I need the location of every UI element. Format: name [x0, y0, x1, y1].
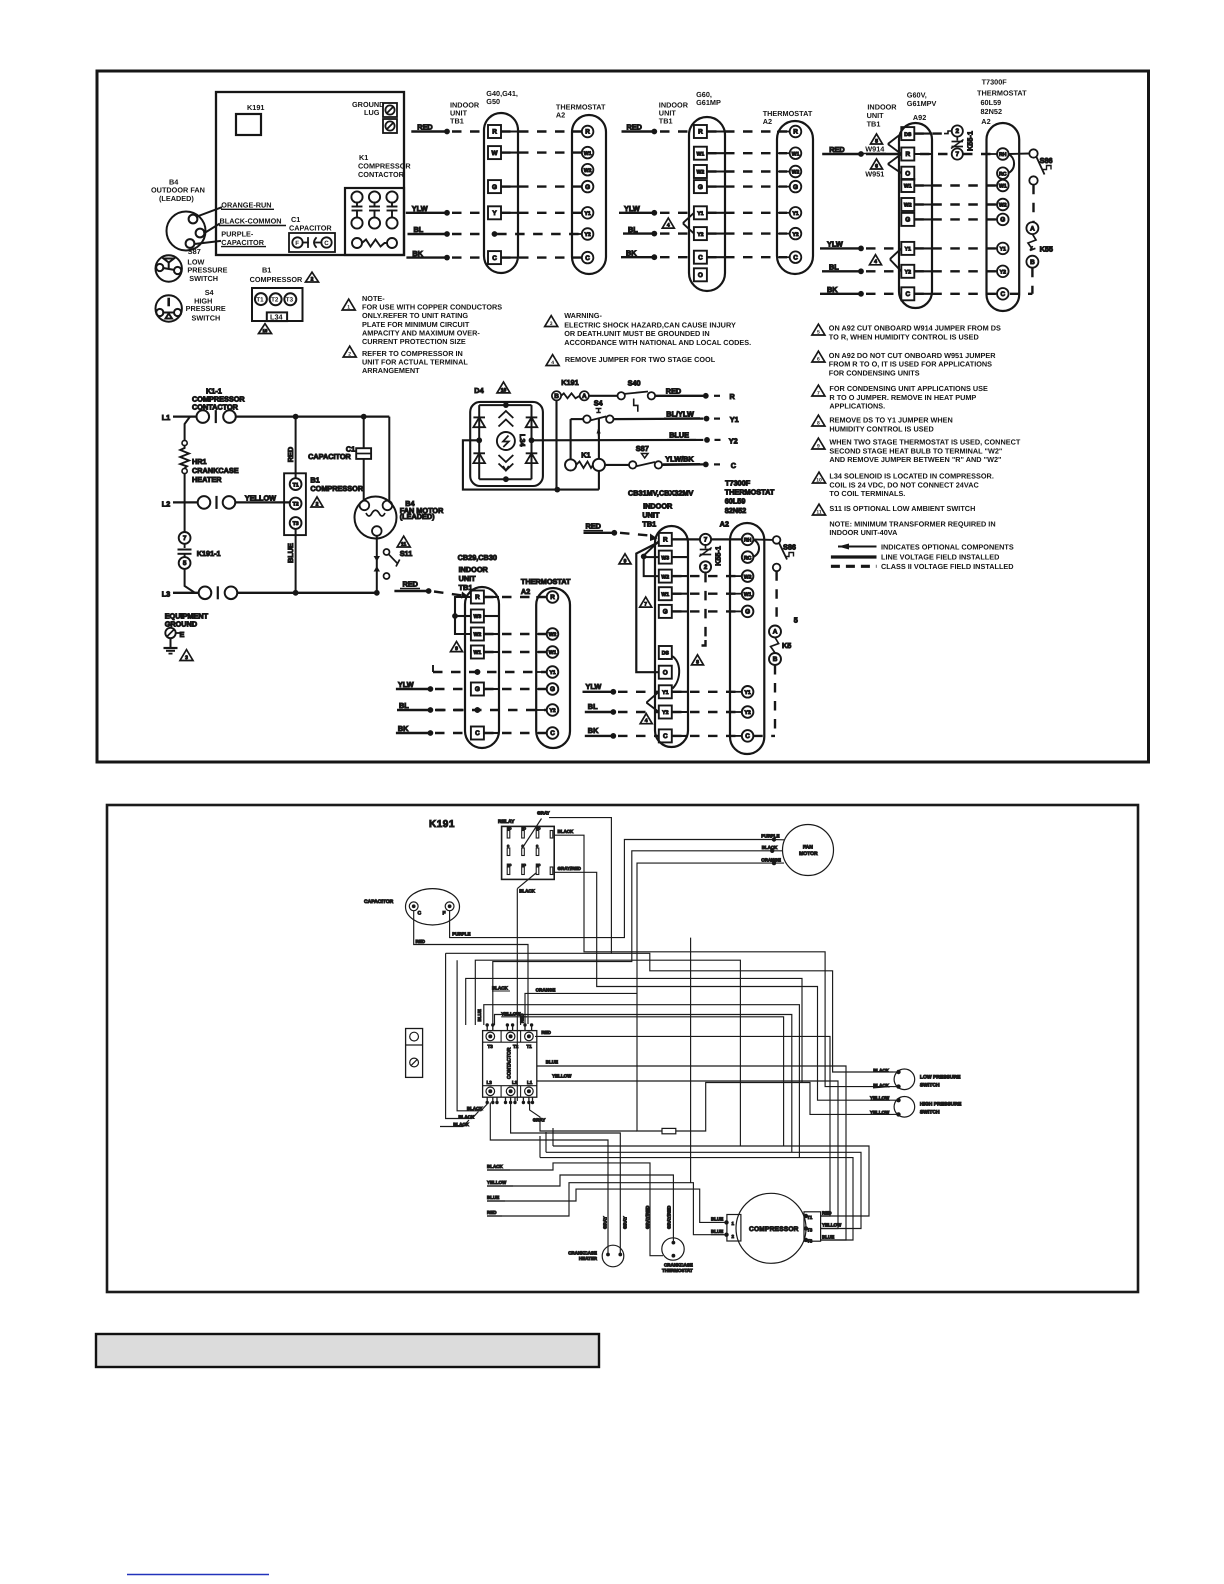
svg-text:K191: K191 — [247, 103, 264, 112]
svg-text:W2: W2 — [584, 168, 592, 174]
svg-text:5: 5 — [875, 138, 878, 144]
svg-text:S11 IS OPTIONAL LOW AMBIENT SW: S11 IS OPTIONAL LOW AMBIENT SWITCH — [829, 504, 975, 513]
right note 11 — [813, 504, 826, 515]
svg-text:Y2: Y2 — [905, 270, 911, 276]
svg-text:R: R — [730, 392, 736, 401]
svg-text:5: 5 — [817, 329, 820, 335]
svg-text:O: O — [905, 170, 910, 177]
svg-text:Y1: Y1 — [792, 211, 798, 217]
svg-text:FAN: FAN — [803, 845, 813, 851]
svg-text:SWITCH: SWITCH — [920, 1082, 940, 1088]
svg-text:C: C — [324, 240, 329, 247]
nest wires compressor loop — [553, 1146, 869, 1216]
svg-text:NO: NO — [536, 827, 541, 831]
svg-text:5: 5 — [183, 560, 187, 567]
svg-text:BLACK: BLACK — [458, 1114, 474, 1119]
svg-text:NC: NC — [507, 863, 512, 867]
thermostat A2 pill (pair 4) — [536, 588, 570, 748]
svg-text:K55-1: K55-1 — [714, 546, 723, 566]
diodes — [473, 416, 485, 418]
svg-text:THERMOSTAT: THERMOSTAT — [725, 488, 775, 497]
svg-text:NC: NC — [522, 863, 527, 867]
svg-text:YELLOW: YELLOW — [245, 494, 276, 503]
svg-text:THERMOSTAT: THERMOSTAT — [662, 1268, 693, 1273]
gray wire right branch to low pressure switch — [611, 953, 893, 1072]
svg-text:G60V,: G60V, — [907, 90, 927, 99]
svg-text:T2: T2 — [271, 297, 279, 304]
svg-text:W2: W2 — [697, 170, 705, 176]
DS to Y1 jumper curve — [672, 656, 679, 689]
svg-text:82N52: 82N52 — [725, 506, 747, 515]
svg-text:A2: A2 — [763, 117, 772, 126]
svg-text:W914: W914 — [865, 145, 885, 154]
svg-text:THERMOSTAT: THERMOSTAT — [977, 88, 1027, 97]
svg-text:NC: NC — [536, 863, 541, 867]
class II dashed wires pair 3 — [914, 186, 997, 294]
svg-text:R: R — [492, 129, 497, 136]
svg-text:Y1: Y1 — [730, 415, 739, 424]
svg-text:T7300F: T7300F — [725, 479, 751, 488]
compressor B1 terminal block — [252, 288, 303, 321]
svg-text:INDOOR: INDOOR — [643, 501, 673, 510]
svg-text:YELLOW: YELLOW — [501, 1011, 521, 1016]
svg-text:T7300F: T7300F — [982, 78, 1008, 87]
svg-text:7: 7 — [817, 390, 820, 396]
svg-text:E: E — [180, 630, 185, 639]
blue footer link line — [127, 1574, 269, 1576]
svg-text:CAPACITOR: CAPACITOR — [289, 224, 332, 233]
svg-text:RED: RED — [666, 387, 681, 396]
svg-text:BL: BL — [399, 701, 409, 710]
svg-text:W1: W1 — [549, 650, 557, 656]
svg-text:9: 9 — [817, 443, 820, 449]
indoor unit TB1 pill A92 (G60V,G61MPV) — [899, 123, 932, 308]
right note 10 — [813, 472, 826, 483]
K55 relay coil A-B (pair 3) — [1010, 222, 1053, 294]
svg-text:L3: L3 — [487, 1080, 493, 1085]
svg-text:L3: L3 — [162, 590, 171, 599]
svg-text:C: C — [905, 291, 910, 298]
long center vertical — [690, 938, 692, 1183]
svg-text:LOW PRESSURE: LOW PRESSURE — [920, 1074, 961, 1080]
svg-text:RED: RED — [416, 939, 426, 944]
svg-text:BLACK: BLACK — [467, 1106, 483, 1111]
svg-text:INDOOR UNIT-40VA: INDOOR UNIT-40VA — [829, 528, 898, 537]
svg-text:ON A92 CUT ONBOARD W914 JUMPER: ON A92 CUT ONBOARD W914 JUMPER FROM DS — [829, 324, 1001, 333]
svg-text:CB31MV,CBX32MV: CB31MV,CBX32MV — [628, 489, 694, 498]
svg-text:W2: W2 — [661, 574, 669, 580]
svg-text:Y2: Y2 — [792, 232, 798, 238]
svg-text:RED: RED — [541, 1030, 551, 1035]
svg-text:GRAY/RED: GRAY/RED — [667, 1205, 672, 1229]
right note 8 — [812, 415, 825, 426]
svg-text:BLACK-COMMON: BLACK-COMMON — [220, 217, 282, 226]
svg-text:W1: W1 — [584, 151, 592, 157]
RH-RC jumper arc (pair 5) — [753, 539, 759, 557]
svg-text:UNIT: UNIT — [642, 511, 660, 520]
svg-text:RH: RH — [744, 538, 752, 544]
svg-text:W2: W2 — [744, 574, 752, 580]
svg-text:B: B — [554, 393, 559, 400]
svg-text:T3: T3 — [488, 1044, 494, 1049]
svg-text:T1: T1 — [256, 296, 264, 303]
svg-text:BLUE: BLUE — [487, 1195, 499, 1200]
svg-text:G: G — [585, 184, 590, 191]
high pressure switch (bottom) — [894, 1097, 915, 1118]
jumper DS-R bracket W914 (pair 3) — [889, 134, 902, 174]
svg-text:NO: NO — [507, 827, 512, 831]
S86 switch (pair 3) — [1008, 149, 1052, 222]
svg-text:GRAY: GRAY — [603, 1216, 608, 1229]
svg-text:S11: S11 — [400, 549, 413, 558]
thermostat A2 pill (pair 2) — [777, 121, 813, 274]
svg-text:G61MP: G61MP — [696, 98, 721, 107]
svg-text:G: G — [475, 686, 480, 693]
svg-text:PURPLE: PURPLE — [761, 834, 779, 839]
field wires (pair 2) — [619, 123, 694, 260]
note 1: copper conductors — [342, 299, 355, 310]
svg-text:W1: W1 — [999, 184, 1007, 190]
svg-text:L1: L1 — [162, 413, 171, 422]
svg-text:NOTE: MINIMUM TRANSFORMER REQU: NOTE: MINIMUM TRANSFORMER REQUIRED IN — [829, 519, 995, 528]
jumper bracket R-W3-W2 (pair 4) — [455, 597, 471, 634]
svg-text:10: 10 — [263, 328, 268, 333]
svg-text:O: O — [698, 272, 703, 279]
svg-text:YELLOW: YELLOW — [822, 1223, 842, 1228]
svg-text:BLUE: BLUE — [711, 1217, 723, 1222]
svg-text:NO: NO — [522, 827, 527, 831]
svg-text:AND REMOVE JUMPER BETWEEN "R": AND REMOVE JUMPER BETWEEN "R" AND "W2" — [829, 455, 1001, 464]
svg-text:INDICATES OPTIONAL COMPONENTS: INDICATES OPTIONAL COMPONENTS — [881, 543, 1014, 552]
svg-text:K5: K5 — [782, 641, 791, 650]
capacitor (bottom) — [406, 889, 460, 925]
contactor left riser wires BLACK — [457, 960, 487, 1111]
svg-text:YELLOW: YELLOW — [552, 1073, 572, 1078]
svg-text:RED: RED — [403, 580, 418, 589]
right note 5 — [812, 324, 825, 335]
svg-text:Y1: Y1 — [905, 247, 911, 253]
svg-text:DS: DS — [662, 651, 670, 657]
svg-text:Y1: Y1 — [549, 670, 555, 676]
note 2: refer to compressor — [343, 346, 356, 357]
svg-text:5: 5 — [794, 616, 798, 625]
svg-text:HIGH PRESSURE: HIGH PRESSURE — [920, 1101, 962, 1107]
svg-text:W3: W3 — [661, 555, 669, 561]
svg-text:UNIT: UNIT — [459, 574, 477, 583]
svg-text:BLACK: BLACK — [762, 845, 778, 850]
svg-text:2: 2 — [956, 128, 960, 135]
svg-text:A2: A2 — [556, 111, 565, 120]
svg-text:F: F — [443, 911, 446, 917]
svg-text:3: 3 — [550, 321, 553, 327]
svg-text:LINE VOLTAGE FIELD INSTALLED: LINE VOLTAGE FIELD INSTALLED — [881, 553, 999, 562]
svg-text:4: 4 — [551, 360, 554, 366]
svg-text:APPLICATIONS.: APPLICATIONS. — [829, 402, 885, 411]
svg-text:TB1: TB1 — [450, 117, 464, 126]
svg-text:HR1: HR1 — [192, 457, 207, 466]
svg-text:B1: B1 — [262, 266, 271, 275]
K5 relay coil A-B (pair 5) — [769, 626, 781, 638]
svg-text:2: 2 — [348, 351, 351, 357]
svg-text:9: 9 — [455, 646, 458, 652]
svg-text:G61MPV: G61MPV — [907, 99, 937, 108]
svg-text:L2: L2 — [162, 499, 171, 508]
BLUE riser T3 to L3 — [295, 529, 297, 593]
svg-text:GRAY/RED: GRAY/RED — [558, 866, 582, 871]
warning triangle below L34 — [259, 324, 272, 334]
svg-text:CURRENT PROTECTION SIZE: CURRENT PROTECTION SIZE — [362, 337, 466, 346]
svg-text:G: G — [905, 217, 910, 224]
svg-text:SWITCH: SWITCH — [189, 274, 218, 283]
nest wires upper-middle — [475, 960, 740, 1146]
svg-text:SECOND STAGE HEAT BULB TO TERM: SECOND STAGE HEAT BULB TO TERMINAL "W2" — [829, 446, 1002, 455]
svg-text:CRANKCASE: CRANKCASE — [192, 466, 239, 475]
svg-text:RED: RED — [586, 522, 601, 531]
svg-text:GRAY: GRAY — [537, 811, 550, 816]
svg-text:K55: K55 — [1040, 245, 1053, 254]
C1 capacitor in fan feed — [363, 417, 365, 449]
svg-text:WARNING-: WARNING- — [564, 311, 602, 320]
svg-text:C: C — [536, 844, 539, 848]
svg-text:BLUE: BLUE — [669, 431, 689, 440]
svg-text:TB1: TB1 — [459, 583, 473, 592]
svg-text:R: R — [698, 129, 703, 136]
svg-text:4: 4 — [645, 718, 648, 724]
svg-text:8: 8 — [817, 420, 820, 426]
svg-text:RC: RC — [744, 555, 752, 561]
svg-text:K55-1: K55-1 — [966, 131, 975, 151]
svg-text:2: 2 — [704, 564, 708, 571]
indoor unit TB1 pill (G60,G61MP) — [689, 117, 725, 291]
svg-text:C: C — [507, 844, 510, 848]
svg-text:S87: S87 — [188, 247, 201, 256]
svg-text:HEATER: HEATER — [192, 475, 222, 484]
svg-text:2: 2 — [311, 277, 314, 283]
svg-text:CONTACTOR: CONTACTOR — [358, 170, 405, 179]
svg-text:YELLOW: YELLOW — [870, 1095, 890, 1100]
svg-text:LUG: LUG — [364, 108, 380, 117]
svg-text:R: R — [550, 594, 555, 601]
svg-text:10: 10 — [501, 387, 507, 393]
svg-text:W1: W1 — [744, 592, 752, 598]
svg-text:W3: W3 — [474, 614, 482, 620]
svg-text:YELLOW: YELLOW — [487, 1180, 507, 1185]
svg-text:K191: K191 — [561, 378, 578, 387]
svg-text:TB1: TB1 — [659, 117, 673, 126]
svg-text:G50: G50 — [486, 97, 500, 106]
jumper bracket Y1-Y2 (pair 3) — [891, 248, 902, 271]
compressor (bottom) — [736, 1193, 806, 1263]
B4 fan motor (power section) — [388, 417, 390, 501]
svg-text:W2: W2 — [474, 632, 482, 638]
svg-text:6: 6 — [817, 356, 820, 362]
svg-text:GRAY/RED: GRAY/RED — [645, 1205, 650, 1229]
svg-text:Y2: Y2 — [729, 436, 738, 445]
svg-text:MOTOR: MOTOR — [799, 851, 818, 857]
control box enclosure — [216, 92, 404, 255]
svg-text:2: 2 — [732, 1234, 735, 1239]
svg-text:60L59: 60L59 — [725, 497, 746, 506]
svg-text:(LEADED): (LEADED) — [400, 512, 435, 521]
svg-text:TO R, WHEN HUMIDITY CONTROL IS: TO R, WHEN HUMIDITY CONTROL IS USED — [829, 332, 979, 341]
B1 compressor terminal strip (power section) — [284, 473, 306, 535]
svg-text:Y: Y — [492, 210, 497, 217]
class II dashed wires pair 1 — [497, 132, 582, 258]
svg-text:R: R — [475, 594, 480, 601]
svg-text:T1: T1 — [527, 1044, 533, 1049]
svg-text:G: G — [492, 184, 497, 191]
svg-text:THERMOSTAT: THERMOSTAT — [521, 577, 571, 586]
svg-text:INDOOR: INDOOR — [459, 565, 489, 574]
svg-text:ORANGE: ORANGE — [536, 987, 556, 992]
S11 low ambient switch — [376, 536, 378, 593]
svg-text:BK: BK — [588, 726, 599, 735]
svg-text:A92: A92 — [913, 113, 926, 122]
svg-text:G: G — [1000, 217, 1005, 224]
svg-text:C: C — [1000, 291, 1005, 298]
svg-text:A2: A2 — [981, 117, 990, 126]
svg-text:CRANKCASE: CRANKCASE — [664, 1263, 693, 1268]
RH-RC jumper arc (pair 3) — [1008, 154, 1014, 173]
svg-text:4: 4 — [667, 223, 670, 229]
svg-text:R TO O JUMPER. REMOVE IN HEAT: R TO O JUMPER. REMOVE IN HEAT PUMP — [829, 393, 976, 402]
Y1 output row — [571, 418, 584, 420]
svg-text:PURPLE: PURPLE — [452, 931, 470, 936]
svg-text:S86: S86 — [783, 543, 796, 552]
svg-text:7: 7 — [644, 602, 647, 608]
svg-text:C: C — [793, 254, 798, 261]
svg-text:GRAY: GRAY — [623, 1216, 628, 1229]
note 3: warning electric shock — [545, 316, 558, 327]
bottom diagram border frame — [107, 805, 1138, 1292]
indoor unit TB1 pill (CB29,CB30) — [465, 587, 499, 748]
crankcase thermostat — [662, 1238, 684, 1260]
svg-text:L2: L2 — [512, 1080, 518, 1085]
svg-text:Y2: Y2 — [662, 710, 668, 716]
jumper R to O (W951, pair 5) — [636, 543, 659, 673]
svg-text:TO COIL TERMINALS.: TO COIL TERMINALS. — [829, 489, 905, 498]
svg-text:A2: A2 — [521, 587, 530, 596]
svg-text:R: R — [585, 129, 590, 136]
svg-text:(LEADED): (LEADED) — [159, 194, 194, 203]
svg-text:K1: K1 — [581, 451, 590, 460]
warning triangle 4 (pair 2) — [662, 218, 674, 229]
svg-text:G: G — [745, 609, 750, 616]
svg-text:RED: RED — [286, 447, 295, 462]
svg-text:11: 11 — [816, 509, 822, 515]
Y1-Y2 bracket (pair 5) — [647, 692, 659, 712]
svg-text:YLW: YLW — [398, 680, 414, 689]
svg-text:L34: L34 — [518, 434, 527, 448]
svg-text:6: 6 — [875, 163, 878, 169]
svg-text:A2: A2 — [720, 519, 729, 528]
svg-text:BLUE: BLUE — [286, 543, 295, 563]
svg-text:C: C — [698, 254, 703, 261]
yellow pin feed — [521, 1017, 784, 1146]
jumper R-W3-W2 (pair 5) — [644, 542, 659, 577]
svg-text:RED: RED — [822, 1211, 832, 1216]
ENDSHAPES1 — [151, 100, 411, 334]
svg-text:8: 8 — [696, 659, 699, 665]
svg-text:W1: W1 — [474, 650, 482, 656]
svg-text:W1: W1 — [792, 151, 800, 157]
svg-text:9: 9 — [624, 558, 627, 564]
svg-text:W2: W2 — [792, 170, 800, 176]
screw terminal strip — [406, 1029, 423, 1078]
svg-text:BLUE: BLUE — [477, 1009, 482, 1021]
svg-text:BLACK: BLACK — [492, 986, 508, 991]
svg-text:S86: S86 — [1040, 156, 1053, 165]
class II dashed wires pair 2 — [707, 132, 787, 258]
svg-text:C: C — [475, 730, 480, 737]
svg-text:1: 1 — [347, 304, 350, 310]
svg-text:K191-1: K191-1 — [197, 549, 221, 558]
low pressure switch S87 (top left) — [156, 255, 182, 281]
svg-text:T3: T3 — [293, 521, 299, 527]
svg-text:CLASS II VOLTAGE FIELD INSTALL: CLASS II VOLTAGE FIELD INSTALLED — [881, 562, 1014, 571]
svg-text:S40: S40 — [628, 379, 641, 388]
svg-text:W2: W2 — [904, 203, 912, 209]
svg-text:T1: T1 — [293, 482, 299, 488]
gray footer bar — [96, 1334, 599, 1367]
svg-text:D4: D4 — [474, 386, 484, 395]
fan motor (bottom) — [783, 825, 834, 876]
svg-text:ON A92 DO NOT CUT ONBOARD W951: ON A92 DO NOT CUT ONBOARD W951 JUMPER — [829, 351, 996, 360]
svg-text:BLUE: BLUE — [546, 1059, 558, 1064]
field wires (pair 3) — [820, 145, 901, 296]
thermostat T7300F pill (pair 3) — [987, 123, 1020, 311]
svg-text:Y2: Y2 — [584, 232, 590, 238]
svg-text:B: B — [773, 656, 778, 663]
svg-text:3: 3 — [185, 655, 188, 661]
svg-text:WHEN TWO STAGE THERMOSTAT IS U: WHEN TWO STAGE THERMOSTAT IS USED, CONNE… — [829, 438, 1020, 447]
svg-text:T3: T3 — [286, 297, 294, 304]
svg-text:W1: W1 — [697, 151, 705, 157]
thermostat T7300F pill (pair 5) — [730, 523, 764, 754]
svg-text:RH: RH — [999, 152, 1007, 158]
top diagram border frame — [97, 71, 1149, 762]
svg-text:T2: T2 — [513, 1044, 519, 1049]
legend: optional components arrow — [831, 544, 877, 567]
svg-text:C: C — [585, 255, 590, 262]
svg-text:W2: W2 — [549, 632, 557, 638]
svg-text:BLACK: BLACK — [519, 889, 535, 894]
svg-text:BL: BL — [588, 702, 598, 711]
gray wire runs right then down to contactor risers — [446, 818, 612, 954]
warning triangle 2 (B1) — [306, 272, 319, 282]
svg-text:F: F — [295, 240, 299, 247]
svg-text:FOR CONDENSING UNIT APPLICATIO: FOR CONDENSING UNIT APPLICATIONS USE — [829, 384, 988, 393]
svg-text:R: R — [793, 129, 798, 136]
svg-text:W2: W2 — [999, 203, 1007, 209]
dashed wires pair 4 — [484, 596, 547, 598]
svg-text:COMPRESSOR: COMPRESSOR — [749, 1226, 799, 1233]
svg-text:SWITCH: SWITCH — [192, 313, 221, 322]
svg-text:G: G — [793, 184, 798, 191]
field wires RED/YLW/BL/BK (pair 1) — [406, 123, 488, 261]
svg-text:BLACK: BLACK — [487, 1164, 503, 1169]
svg-text:RED: RED — [487, 1210, 497, 1215]
svg-text:Y1: Y1 — [662, 690, 668, 696]
svg-text:BL/YLW: BL/YLW — [666, 409, 694, 418]
right note 9 — [812, 438, 825, 449]
crankcase heater — [602, 1245, 624, 1267]
svg-text:Y2: Y2 — [1000, 270, 1006, 276]
svg-text:L1: L1 — [527, 1080, 533, 1085]
svg-text:60L59: 60L59 — [981, 98, 1002, 107]
svg-text:2: 2 — [316, 501, 319, 507]
svg-text:RC: RC — [999, 171, 1007, 177]
